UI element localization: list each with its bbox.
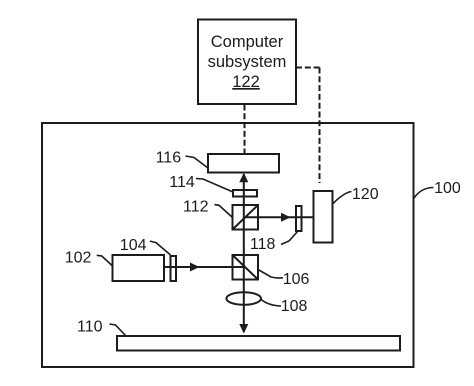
outer system box 100 [42,123,414,367]
leader for label 114 [196,179,233,193]
svg-text:112: 112 [183,199,209,216]
leader for label 120 [333,192,352,205]
leader for label 118 [281,232,298,245]
leader for label 108 [261,299,282,306]
horizontal beam wire 102 to 106 [164,266,245,268]
svg-text:subsystem: subsystem [208,53,287,71]
svg-text:122: 122 [232,73,260,91]
svg-text:116: 116 [156,149,182,166]
svg-text:Computer: Computer [211,33,284,51]
svg-text:118: 118 [250,236,276,253]
dashed wire computer 122 to detector 116 [244,105,246,155]
vertical beam wire [243,174,245,332]
beam splitter 106 [233,255,259,280]
horizontal beam wire 112 to 120 [244,216,314,218]
leader for label 104 [150,241,171,255]
detector 116 [208,154,279,173]
up arrowhead into detector 116 [239,173,248,183]
leader for label 112 [215,205,233,218]
leader for label 100 [414,188,434,199]
svg-text:102: 102 [65,249,92,266]
leader for label 116 [186,156,209,168]
waveplate 118 [296,206,302,231]
computer subsystem box 122 [198,20,296,105]
svg-text:110: 110 [77,319,103,336]
svg-text:114: 114 [169,174,195,191]
svg-text:104: 104 [120,237,147,254]
leader for label 106 [258,270,283,279]
leader for label 110 [110,324,126,336]
right arrowhead before beam splitter 106 [190,263,200,272]
svg-text:106: 106 [283,271,310,288]
dashed wire computer 122 to detector 120 (vertical segment) [319,68,321,184]
objective lens 108 [226,292,261,305]
light source 102 [113,255,165,281]
spectral filter 114 [233,190,257,197]
attenuator 104 [171,256,177,281]
dashed wire computer 122 to detector 120 (horizontal segment) [296,67,320,69]
down arrowhead toward wafer 110 [239,324,248,334]
detector 120 [314,191,333,243]
svg-text:100: 100 [434,180,461,197]
wafer 110 [117,336,400,351]
leader for label 102 [97,255,113,266]
right arrowhead before element 118 [281,213,291,222]
beam splitter 112 [233,205,259,230]
svg-text:120: 120 [352,186,379,203]
svg-text:108: 108 [281,298,308,315]
